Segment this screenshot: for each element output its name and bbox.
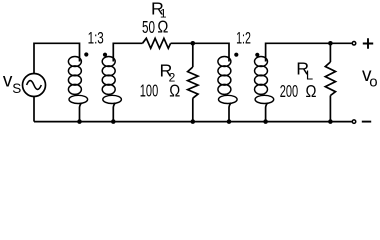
- junction dots: [77, 119, 82, 124]
- transformer T1 primary coil: [68, 57, 87, 104]
- svg-text:200: 200: [280, 81, 298, 101]
- wire T1 primary bottom stub: [80, 103, 82, 122]
- transformer T2 primary coil: [218, 57, 237, 104]
- wire T1 secondary bottom stub: [113, 103, 115, 122]
- svg-text:Ω: Ω: [157, 16, 168, 36]
- wire source bottom: [33, 97, 35, 122]
- minus sign: [362, 121, 371, 123]
- svg-text:Ω: Ω: [169, 81, 180, 101]
- resistor R1 zigzag: [143, 38, 171, 48]
- polarity dot T2 primary: [234, 53, 238, 57]
- wire T1 secondary top to R1: [113, 43, 142, 61]
- wire bottom rail: [34, 121, 352, 123]
- svg-text:1:3: 1:3: [88, 30, 104, 48]
- wire source top to T1 primary: [34, 43, 80, 73]
- svg-text:50: 50: [142, 17, 155, 37]
- terminal bottom: [352, 120, 356, 124]
- wire T2 secondary bottom stub: [266, 103, 268, 122]
- polarity dot T1 primary: [84, 52, 88, 56]
- transformer T1 secondary coil: [102, 57, 121, 104]
- svg-text:Ω: Ω: [306, 81, 317, 101]
- resistor R2 vertical: [192, 43, 194, 67]
- svg-text:o: o: [369, 73, 377, 90]
- svg-text:1:2: 1:2: [236, 30, 251, 48]
- polarity dot T2 secondary: [255, 53, 259, 57]
- plus sign: [363, 38, 373, 49]
- wire R1 to T2 primary: [171, 43, 229, 61]
- wire T2 secondary top to output terminal: [266, 43, 352, 61]
- transformer T2 secondary coil: [255, 57, 274, 104]
- terminal top: [352, 42, 356, 46]
- resistor RL vertical: [329, 43, 331, 62]
- svg-text:S: S: [12, 81, 21, 96]
- svg-text:100: 100: [140, 81, 158, 101]
- source vS: [23, 74, 46, 97]
- polarity dot T1 secondary: [103, 53, 107, 57]
- wire T2 primary bottom stub: [229, 103, 231, 122]
